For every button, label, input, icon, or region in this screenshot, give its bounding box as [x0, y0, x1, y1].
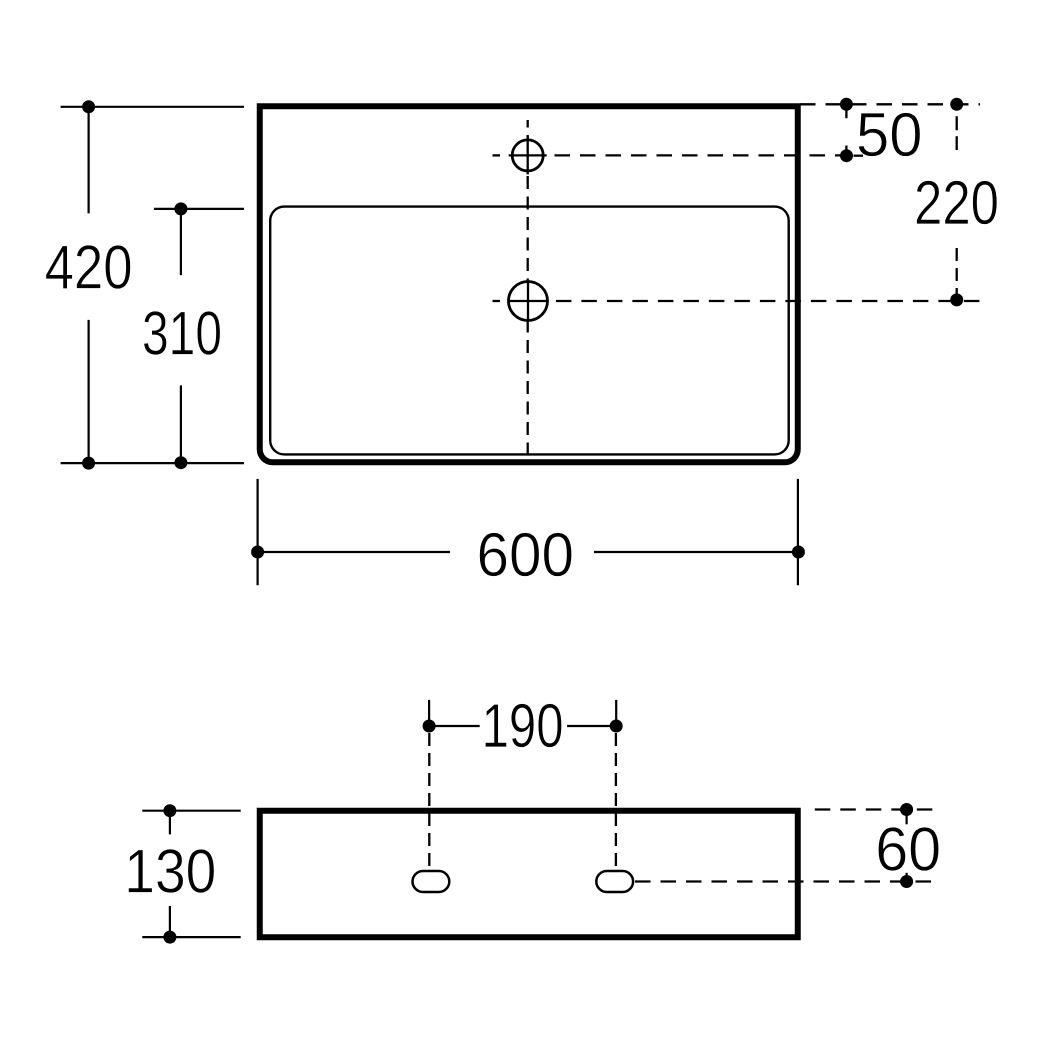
dim 50 connector dash — [845, 111, 847, 119]
dim 600 dot left — [251, 546, 264, 559]
dim 60 dot lower — [900, 875, 913, 888]
dim 310 dot top — [174, 202, 187, 215]
top edge dashed extension line — [800, 103, 980, 105]
left fixing hole (front view) — [413, 871, 450, 892]
svg-text:190: 190 — [482, 691, 564, 761]
dim 190 dot right — [610, 720, 623, 733]
dim 130 line lower segment — [169, 906, 171, 937]
dim 220 dashed connector lower — [956, 248, 958, 300]
dim 600 extension line left — [257, 479, 259, 585]
dim 420 line upper segment — [87, 107, 89, 214]
washbasin body (front view) — [260, 811, 798, 938]
washbasin outer rim (top view) — [260, 106, 798, 462]
dim 130 dot bottom — [163, 931, 176, 944]
dim 220 dashed connector upper — [956, 104, 958, 150]
svg-text:420: 420 — [45, 233, 133, 303]
dim 50 dot lower — [840, 149, 853, 162]
dim 60 dot upper — [900, 803, 913, 816]
dim 190 left dashed drop line — [428, 733, 430, 869]
dim 420 dot top — [82, 100, 95, 113]
drain hole crosshair — [509, 300, 547, 302]
svg-text:600: 600 — [477, 520, 575, 590]
dim 60 upper stub — [905, 814, 907, 825]
dim 130 extension tick bottom — [142, 936, 240, 938]
dim 420 line lower segment — [87, 320, 89, 463]
svg-text:310: 310 — [142, 299, 222, 369]
drain hole horizontal dashed centerline — [493, 300, 501, 302]
faucet hole horizontal dashed centerline — [493, 154, 501, 156]
dim 600 dot right — [792, 546, 805, 559]
dim 220 dot lower — [950, 293, 963, 306]
dim 600 extension line right — [797, 479, 799, 585]
dim 310 line lower segment — [180, 385, 182, 462]
dim 310 dot bottom — [174, 456, 187, 469]
dim 60 lower stub — [905, 873, 907, 879]
svg-text:60: 60 — [875, 815, 941, 885]
svg-text:220: 220 — [914, 168, 999, 238]
dim 190 right extension line — [615, 700, 617, 726]
dim 50 connector nub — [845, 146, 847, 151]
dim 600 line right segment — [594, 551, 798, 553]
dim 310 extension tick top — [154, 208, 244, 210]
dim 190 dot left — [423, 720, 436, 733]
dim 310 line upper segment — [180, 209, 182, 275]
right fixing hole (front view) — [596, 871, 633, 892]
dim 420 dot bottom — [82, 457, 95, 470]
dim 190 line right segment — [567, 725, 613, 727]
top edge dashed extension (front view) — [805, 808, 935, 810]
dim 190 right dashed drop line — [615, 733, 617, 869]
dim 130 extension tick top — [142, 810, 240, 812]
dim 190 left extension line — [428, 700, 430, 726]
dim 50 dot upper — [840, 98, 853, 111]
dim 220 dot upper — [950, 98, 963, 111]
basin inner bowl (top view) — [270, 207, 789, 455]
hole centerline dashed (front view) — [635, 880, 935, 882]
dim 190 line left segment — [434, 725, 480, 727]
svg-text:50: 50 — [856, 100, 923, 170]
dim 130 dot top — [163, 804, 176, 817]
centerline vertical dashed (top view) — [527, 120, 529, 460]
dim 420 extension tick top — [61, 106, 244, 108]
dim 420 extension tick bottom — [61, 462, 244, 464]
faucet hole crosshair — [509, 154, 547, 156]
drain hole circle — [509, 282, 548, 321]
faucet hole circle — [512, 140, 543, 171]
svg-text:130: 130 — [124, 837, 216, 907]
dim 600 line left segment — [258, 551, 450, 553]
dim 130 line upper segment — [169, 811, 171, 835]
